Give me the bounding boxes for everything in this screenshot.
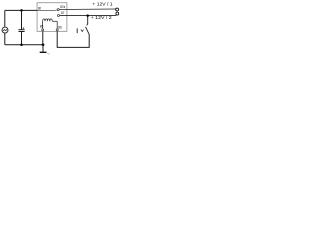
node junction wire2 to switch	[86, 14, 89, 17]
contact 87 circle	[58, 15, 60, 17]
wire 87 to terminal +12V/2	[60, 14, 117, 16]
svg-text:30: 30	[38, 7, 42, 11]
node junction rail end	[42, 43, 45, 46]
switch actuator arrow	[81, 30, 84, 32]
pin 85 terminal circle	[42, 29, 44, 31]
node junction bottom (cap to rail)	[20, 43, 23, 46]
svg-text:+ 12V / 2: + 12V / 2	[91, 15, 112, 21]
switch S1 arm	[86, 27, 90, 35]
pin 86 terminal circle	[56, 29, 58, 31]
contact 87a circle	[57, 9, 59, 11]
wire bottom rail	[5, 44, 43, 46]
wire pin85 lead down to rail	[42, 31, 44, 44]
terminal circle +12V/2	[116, 12, 119, 15]
wire left vertical upper	[4, 10, 6, 27]
wire left vertical lower	[4, 33, 6, 45]
AC source G1	[2, 27, 8, 33]
node junction top (cap to top wire)	[20, 9, 23, 12]
svg-text:+ 12V / 1: + 12V / 1	[92, 2, 112, 8]
relay coil K1	[43, 19, 58, 29]
svg-text:86: 86	[58, 25, 62, 29]
relay box outline	[37, 3, 67, 32]
wire capacitor bottom lead	[21, 32, 23, 45]
switch actuator stub	[76, 28, 78, 33]
wire pin86 lead down	[57, 31, 89, 47]
wire 87a to terminal +12V/1	[59, 8, 115, 11]
svg-text:85: 85	[40, 24, 44, 28]
terminal circle +12V/1	[116, 8, 119, 11]
wire ground lead	[42, 45, 44, 52]
capacitor C1	[19, 27, 25, 31]
wire common (pin 30) inside relay	[37, 9, 57, 12]
svg-text:87a: 87a	[60, 5, 65, 9]
wire capacitor top lead	[21, 10, 23, 29]
wire top-left horizontal	[5, 9, 37, 11]
svg-text:87: 87	[61, 11, 65, 15]
switch S1 top lead	[87, 16, 88, 26]
ground	[40, 52, 50, 54]
